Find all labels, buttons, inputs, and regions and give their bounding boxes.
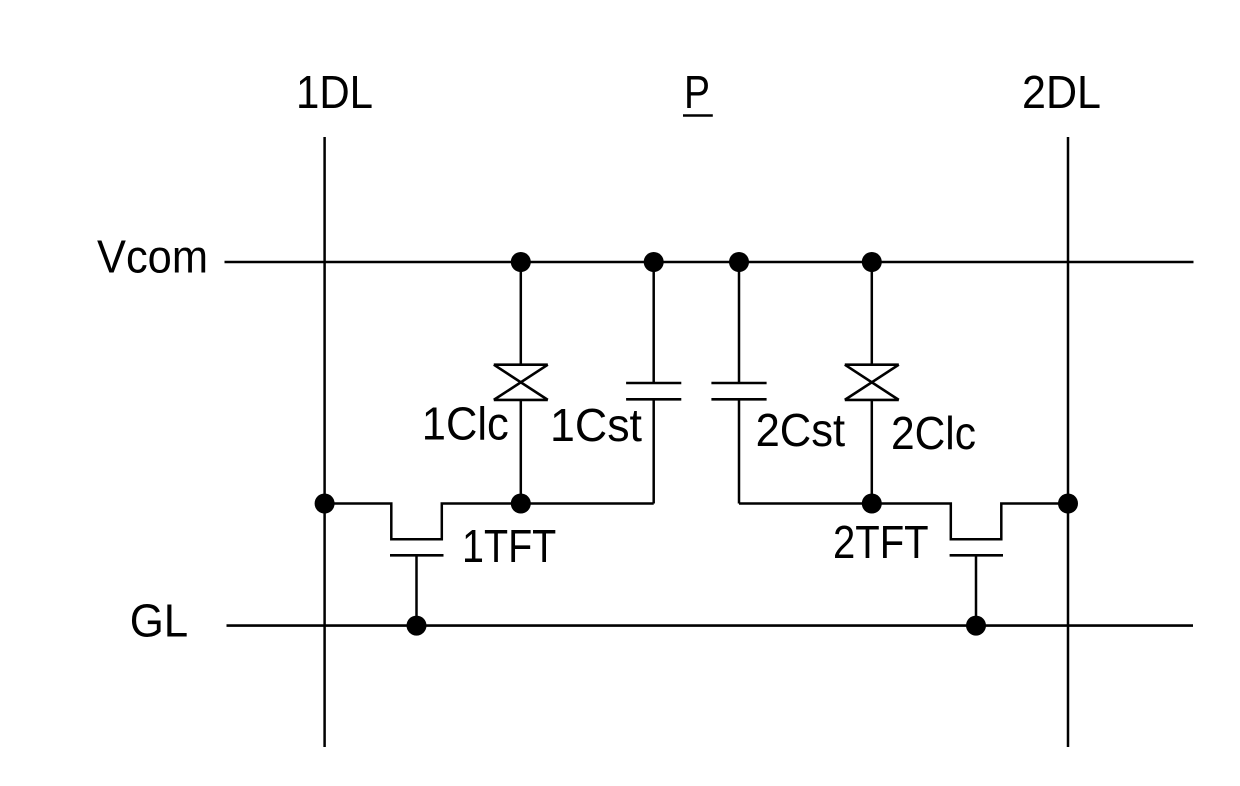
node P label (pixel designator)	[683, 66, 713, 118]
wire GL horizontal gate line	[227, 624, 1194, 627]
svg-text:P: P	[684, 66, 710, 118]
svg-text:2Clc: 2Clc	[891, 407, 976, 459]
junction GL to 2TFT gate	[966, 616, 986, 636]
svg-text:GL: GL	[130, 594, 189, 646]
junction GL to 1TFT gate	[407, 616, 427, 636]
wire Vcom to 1Cst top plate	[652, 262, 655, 383]
wire Vcom to 1Clc top	[520, 262, 523, 365]
svg-text:2DL: 2DL	[1022, 66, 1101, 118]
wire 2TFT gate to GL	[975, 555, 978, 625]
junction pixel node 2 (2TFT drain / 2Clc / 2Cst)	[862, 494, 882, 514]
junction pixel node 1 (1TFT drain / 1Clc / 1Cst)	[511, 494, 531, 514]
wire 1TFT gate to GL	[415, 555, 418, 625]
svg-text:1TFT: 1TFT	[462, 520, 556, 572]
capacitor 2Clc (liquid crystal capacitor, hourglass symbol)	[845, 365, 899, 400]
svg-text:Vcom: Vcom	[97, 231, 208, 283]
wire 2DL vertical data line	[1067, 137, 1070, 747]
wire 2Cst bottom plate to pixel node	[738, 399, 741, 503]
junction on Vcom at 1Clc	[511, 252, 531, 272]
transistor 2TFT source-drain path	[739, 504, 1068, 540]
capacitor 1Cst (storage capacitor)	[626, 383, 681, 399]
transistor 1TFT source-drain path	[325, 504, 654, 540]
junction on Vcom at 2Cst	[729, 252, 749, 272]
svg-text:1Cst: 1Cst	[550, 399, 642, 451]
junction on Vcom at 1Cst	[644, 252, 664, 272]
wire 1Clc bottom to pixel node	[520, 400, 523, 504]
capacitor 1Clc (liquid crystal capacitor, hourglass symbol)	[494, 365, 548, 400]
svg-text:1Clc: 1Clc	[422, 398, 509, 450]
svg-text:2Cst: 2Cst	[756, 404, 846, 456]
transistor 1TFT gate bar	[390, 554, 444, 557]
junction 1DL to 1TFT source	[315, 494, 335, 514]
junction on Vcom at 2Clc	[862, 252, 882, 272]
wire Vcom horizontal common line	[225, 261, 1194, 264]
wire 2Clc bottom to pixel node	[871, 400, 874, 504]
transistor 2TFT gate bar	[950, 554, 1003, 557]
junction 2DL to 2TFT source	[1058, 494, 1078, 514]
svg-text:2TFT: 2TFT	[833, 516, 929, 568]
wire 1DL vertical data line	[323, 137, 326, 747]
wire Vcom to 2Cst top plate	[738, 262, 741, 383]
capacitor 2Cst (storage capacitor)	[711, 383, 766, 399]
wire Vcom to 2Clc top	[871, 262, 874, 365]
svg-text:1DL: 1DL	[296, 66, 373, 118]
wire 1Cst bottom plate to pixel node	[652, 399, 655, 503]
